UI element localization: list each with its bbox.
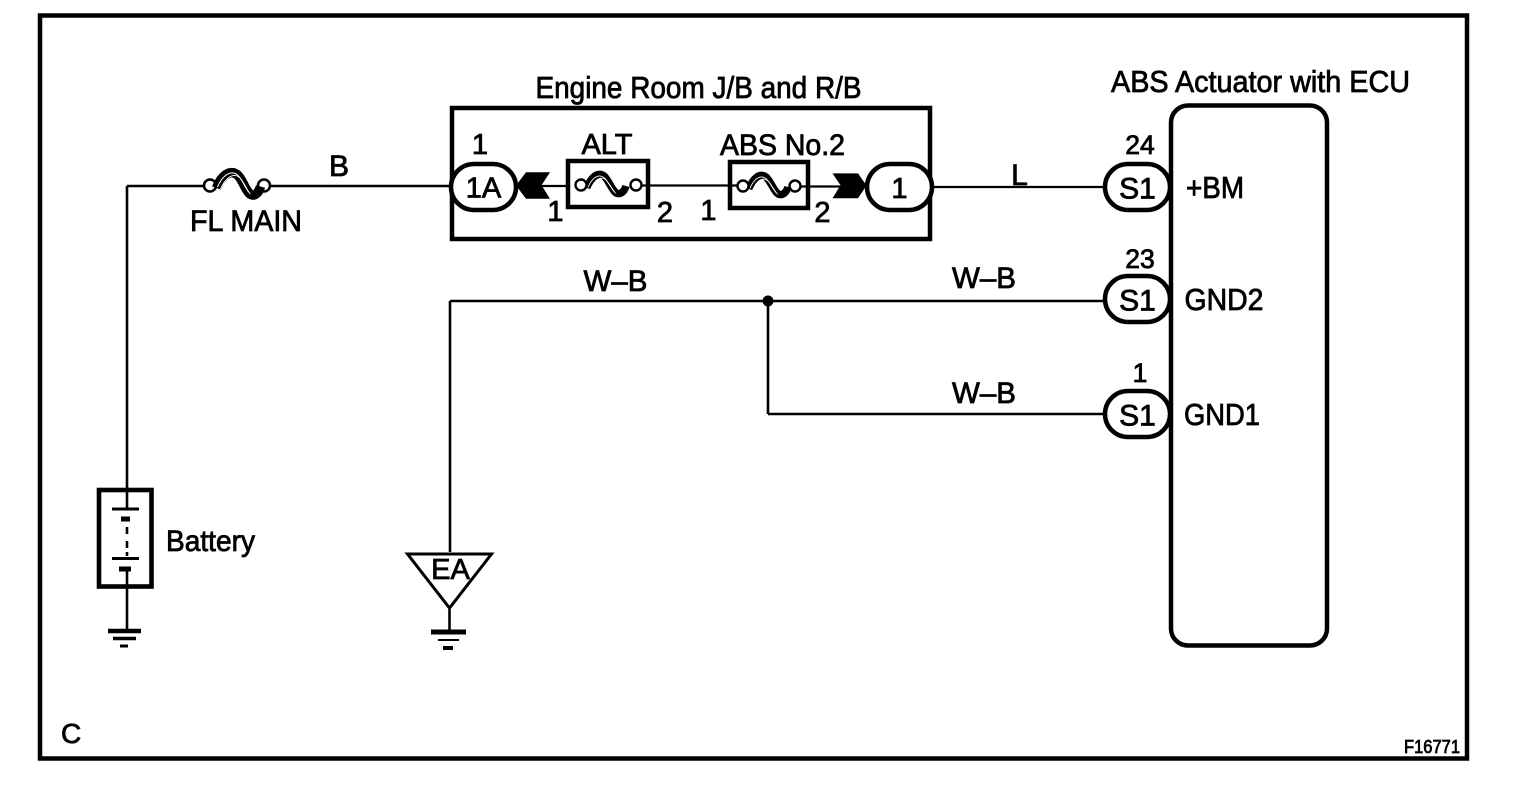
wire ALT to ABS No.2 xyxy=(642,184,737,186)
svg-text:B: B xyxy=(329,150,349,183)
svg-text:S1: S1 xyxy=(1119,173,1156,206)
wire W-B: to S1 GND1 xyxy=(768,413,1105,416)
connector S1 pin 1 xyxy=(1105,391,1170,437)
connector 1A xyxy=(451,164,516,210)
svg-text:1: 1 xyxy=(472,129,488,161)
svg-text:1A: 1A xyxy=(466,173,502,205)
svg-text:1: 1 xyxy=(700,195,716,227)
connector S1 pin 23 xyxy=(1105,276,1170,322)
wire W-B: to S1 GND2 xyxy=(450,300,1105,303)
wire ALT to arrow xyxy=(540,185,570,187)
svg-text:S1: S1 xyxy=(1119,285,1156,318)
svg-text:Engine Room J/B and R/B: Engine Room J/B and R/B xyxy=(536,70,862,105)
svg-text:2: 2 xyxy=(814,197,830,229)
arrow right (into connector 1) xyxy=(833,173,867,198)
svg-text:GND1: GND1 xyxy=(1184,398,1260,432)
svg-text:W–B: W–B xyxy=(952,377,1016,410)
svg-text:1: 1 xyxy=(891,173,907,205)
wire L to +BM xyxy=(932,186,1105,188)
svg-text:S1: S1 xyxy=(1119,400,1156,433)
connector S1 pin 24 xyxy=(1105,164,1170,210)
wire ABS No.2 to arrow xyxy=(800,185,840,187)
svg-text:2: 2 xyxy=(657,197,673,229)
ABS Actuator with ECU body xyxy=(1171,106,1327,646)
svg-text:W–B: W–B xyxy=(584,265,648,298)
wire B: FL MAIN to 1A xyxy=(270,185,452,188)
svg-text:F16771: F16771 xyxy=(1404,736,1460,757)
svg-text:ABS Actuator with ECU: ABS Actuator with ECU xyxy=(1111,64,1410,99)
ground (battery) xyxy=(108,631,141,646)
node junction xyxy=(763,296,774,307)
wire riser to FL MAIN xyxy=(127,185,204,188)
svg-text:FL MAIN: FL MAIN xyxy=(190,205,302,238)
svg-text:+BM: +BM xyxy=(1186,171,1244,205)
wire W-B: EA riser xyxy=(449,301,452,552)
svg-text:ABS No.2: ABS No.2 xyxy=(720,129,845,162)
svg-text:L: L xyxy=(1011,159,1028,192)
fuse ALT xyxy=(568,161,648,207)
svg-text:ALT: ALT xyxy=(581,129,632,161)
svg-text:GND2: GND2 xyxy=(1185,283,1264,317)
fuse ABS No.2 xyxy=(730,162,808,208)
svg-text:1: 1 xyxy=(1133,358,1148,388)
fusible link FL MAIN xyxy=(204,173,270,195)
svg-text:1: 1 xyxy=(547,196,563,228)
svg-text:C: C xyxy=(61,718,81,749)
svg-text:Battery: Battery xyxy=(166,525,255,558)
svg-text:23: 23 xyxy=(1125,244,1154,274)
svg-text:24: 24 xyxy=(1125,130,1154,160)
arrow left (into 1A) xyxy=(516,172,550,198)
battery xyxy=(99,490,152,629)
ground EA triangle xyxy=(408,554,492,648)
Engine Room J/B and R/B box xyxy=(452,108,930,239)
svg-text:W–B: W–B xyxy=(952,262,1016,295)
svg-text:EA: EA xyxy=(431,554,470,586)
wire junction drop xyxy=(767,301,770,414)
connector 1 (right of J/B) xyxy=(867,164,932,210)
wire battery riser xyxy=(126,186,129,490)
